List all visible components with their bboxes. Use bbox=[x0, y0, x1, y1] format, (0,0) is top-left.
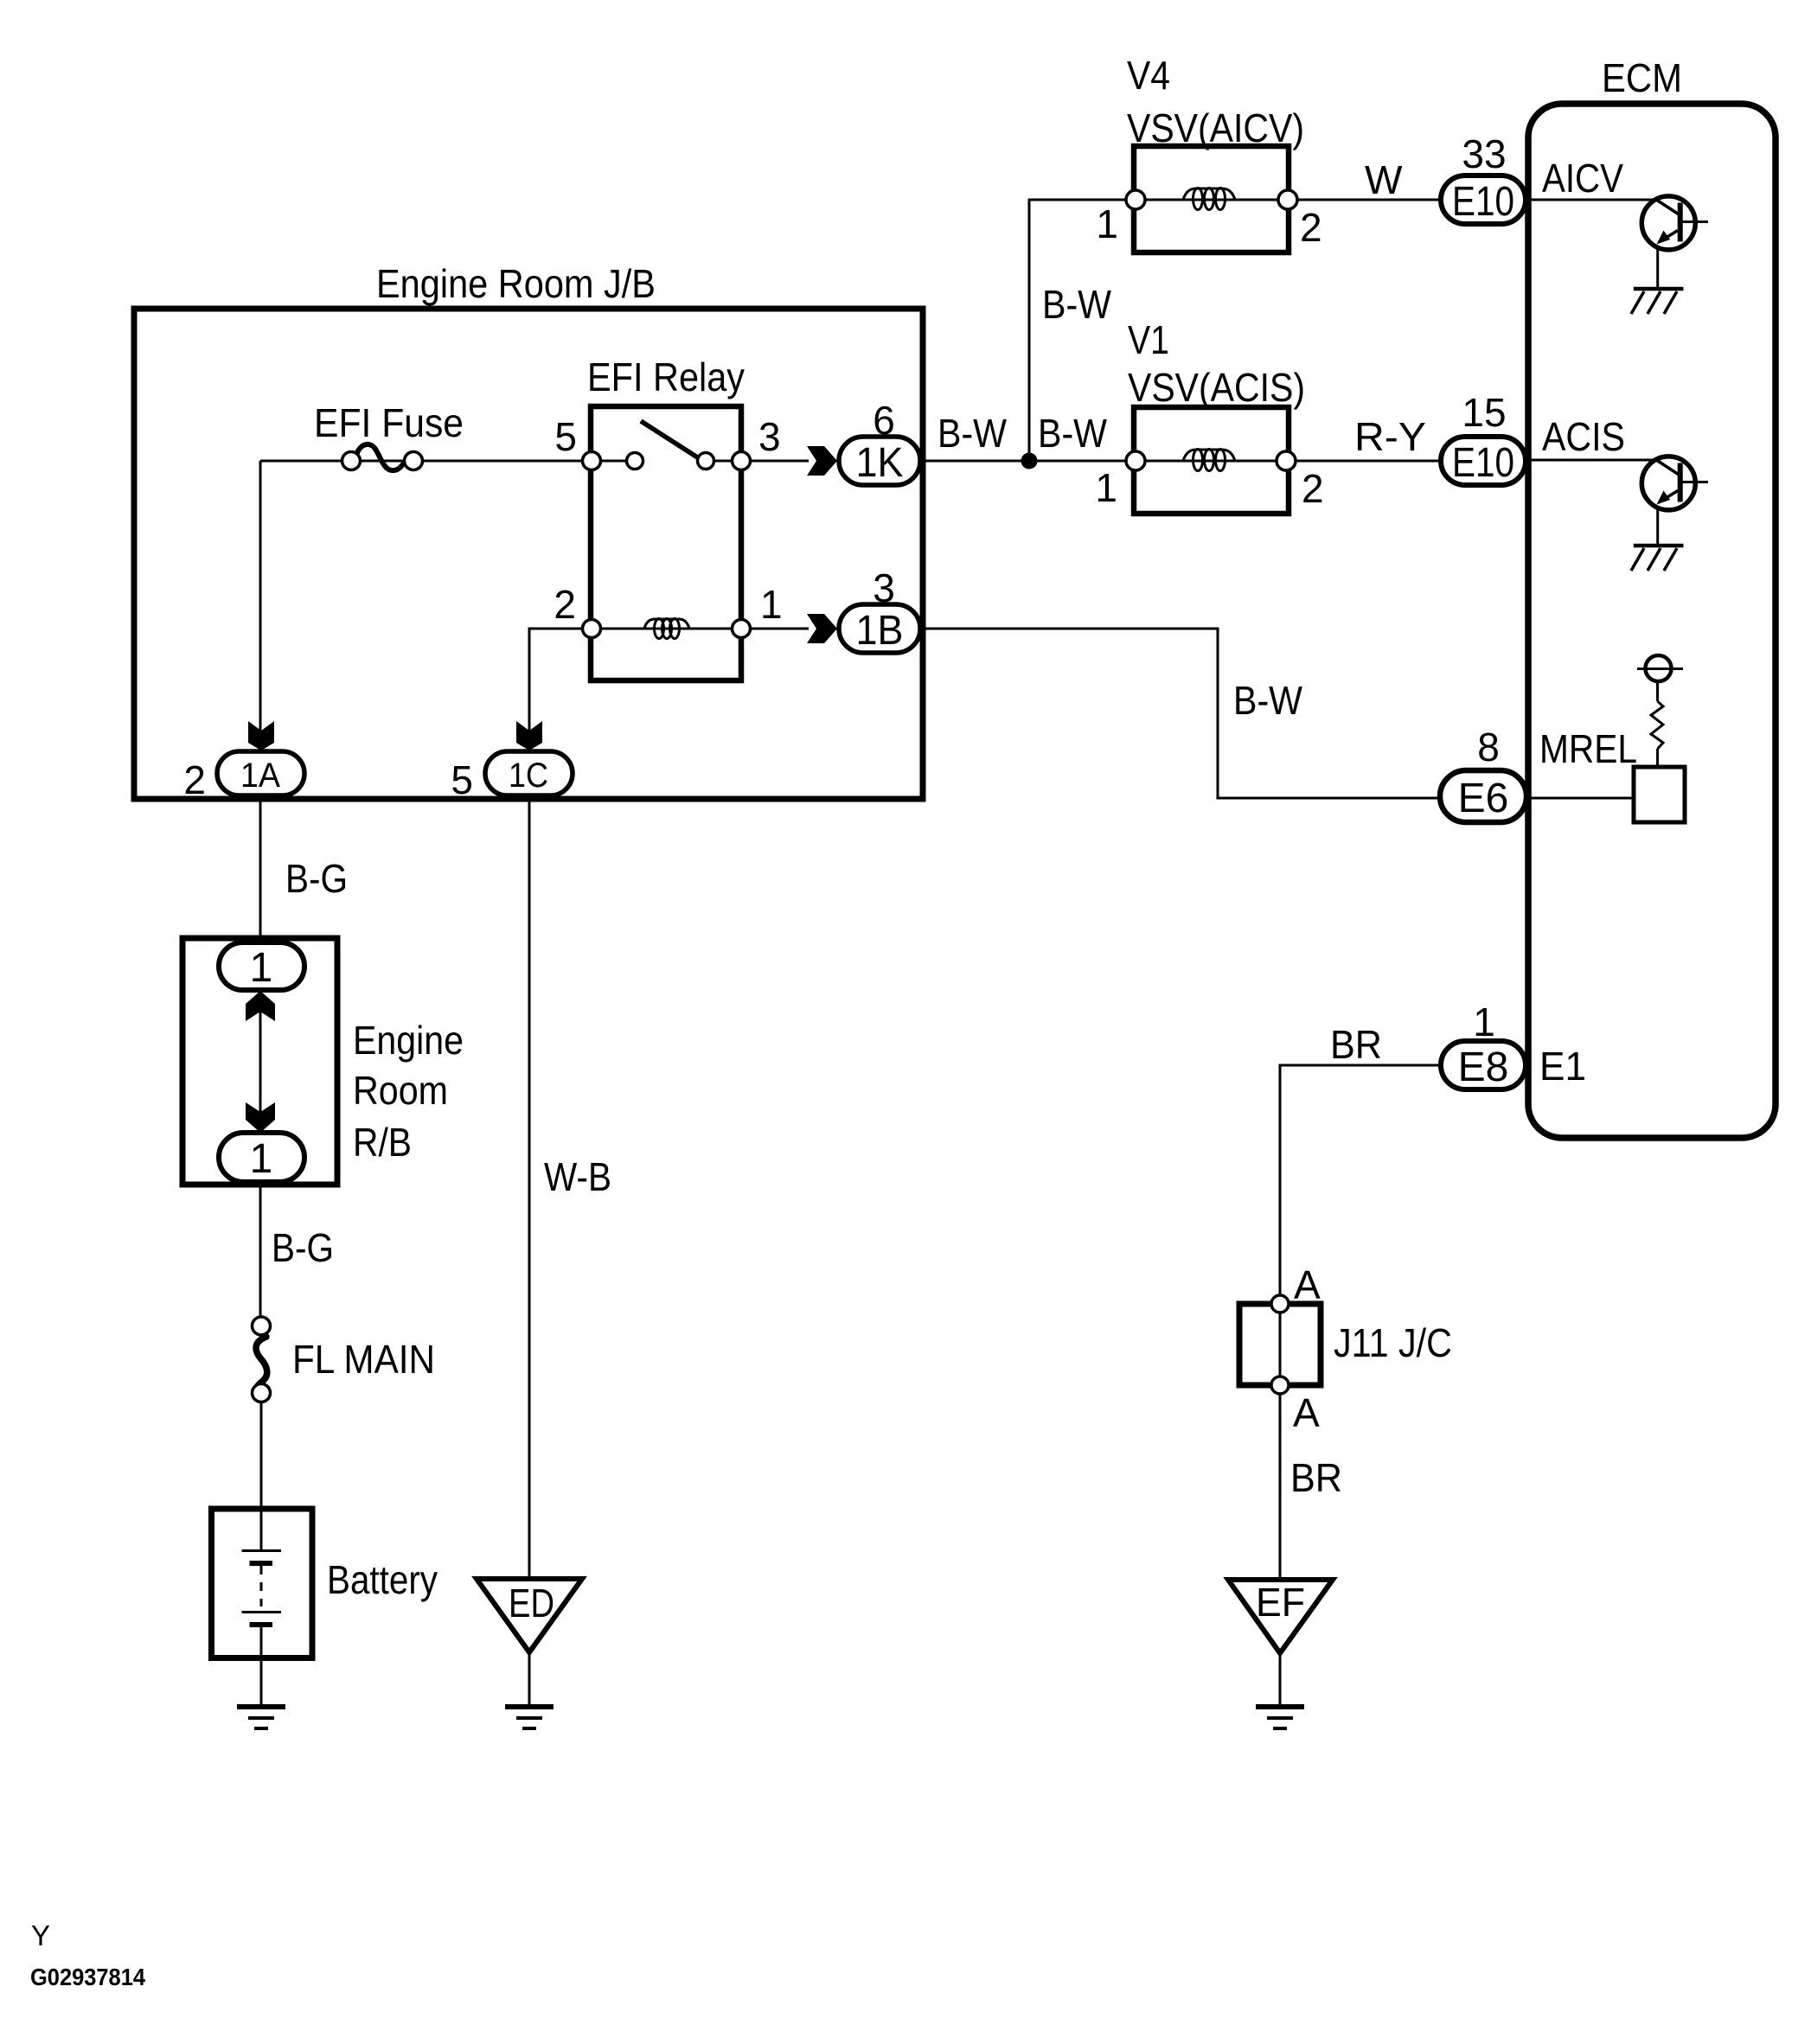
svg-text:V1: V1 bbox=[1128, 317, 1169, 362]
wire ED to earth bbox=[528, 1652, 531, 1707]
connector 1C pin 5 bbox=[451, 751, 573, 802]
R/B connector 1 top bbox=[219, 942, 304, 991]
wire 1K to VSV ACIS pin 1 (B-W) bbox=[920, 460, 1136, 463]
svg-text:EF: EF bbox=[1256, 1580, 1305, 1625]
svg-text:EFI Fuse: EFI Fuse bbox=[314, 400, 464, 445]
wire V4 pin2 to E10 (W) bbox=[1297, 199, 1441, 201]
svg-text:E6: E6 bbox=[1458, 776, 1509, 821]
svg-text:Engine: Engine bbox=[353, 1018, 464, 1063]
svg-text:1C: 1C bbox=[509, 757, 548, 795]
J11 pin A top bbox=[1271, 1262, 1321, 1313]
wire Q1 emitter to ground bbox=[1656, 246, 1659, 289]
wire MREL box to resistor bbox=[1656, 749, 1659, 767]
svg-text:E10: E10 bbox=[1452, 440, 1514, 486]
ground (chassis) for Q1 bbox=[1631, 289, 1684, 314]
svg-text:B-W: B-W bbox=[1042, 282, 1112, 327]
resistor (MREL pull-up) bbox=[1651, 701, 1663, 749]
transistor Q2 (ACIS driver) bbox=[1641, 457, 1708, 510]
svg-text:8: 8 bbox=[1477, 725, 1500, 770]
svg-text:VSV(ACIS): VSV(ACIS) bbox=[1128, 365, 1305, 410]
ECM box bbox=[1528, 55, 1776, 1138]
V1 coil bbox=[1183, 450, 1235, 461]
svg-text:EFI Relay: EFI Relay bbox=[587, 355, 745, 399]
svg-text:5: 5 bbox=[451, 757, 473, 802]
svg-text:E8: E8 bbox=[1458, 1044, 1509, 1090]
ground triangle EF bbox=[1228, 1580, 1333, 1653]
V1 pin 2 bbox=[1277, 451, 1324, 511]
svg-text:15: 15 bbox=[1462, 390, 1506, 435]
svg-text:G02937814: G02937814 bbox=[30, 1964, 145, 1990]
relay pin 1 bbox=[733, 582, 783, 638]
arrow into 1B bbox=[807, 614, 837, 643]
svg-text:1: 1 bbox=[250, 945, 273, 991]
wire Q2 emitter to ground bbox=[1656, 506, 1659, 546]
relay coil bbox=[644, 619, 689, 629]
V4 pin 1 bbox=[1096, 190, 1145, 246]
wire V1 pin2 to E10 (R-Y) bbox=[1296, 460, 1441, 463]
svg-text:2: 2 bbox=[1302, 466, 1324, 511]
relay EFI Relay bbox=[587, 355, 745, 680]
svg-text:B-G: B-G bbox=[272, 1225, 334, 1270]
ground (earth) for ED bbox=[505, 1707, 554, 1728]
svg-text:3: 3 bbox=[758, 414, 781, 459]
svg-text:W: W bbox=[1365, 157, 1403, 202]
connector E8 pin 1 / E1 bbox=[1441, 1000, 1526, 1090]
wire relay pin1 to 1B connector bbox=[750, 628, 809, 630]
svg-text:MREL: MREL bbox=[1539, 726, 1637, 771]
wire R/B down to FL MAIN (B-G) bbox=[259, 1182, 262, 1318]
svg-text:Room: Room bbox=[353, 1068, 448, 1113]
wire 1B to E6 (B-W) bbox=[920, 629, 1441, 798]
node junction dot bbox=[1021, 453, 1038, 469]
wire 1A down to R/B (B-G) bbox=[259, 800, 262, 944]
wire V1 pin1 to pin2 through coil bbox=[1136, 460, 1286, 463]
arrow down in R/B bbox=[246, 1102, 275, 1133]
svg-text:ECM: ECM bbox=[1602, 55, 1682, 100]
wire from EFI fuse row to relay pin 5 bbox=[260, 460, 591, 463]
connector E6 pin 8 bbox=[1440, 725, 1526, 822]
svg-text:ED: ED bbox=[509, 1581, 554, 1626]
svg-text:5: 5 bbox=[554, 414, 577, 459]
svg-text:E1: E1 bbox=[1539, 1044, 1586, 1089]
svg-text:ACIS: ACIS bbox=[1542, 414, 1625, 459]
svg-text:3: 3 bbox=[873, 565, 895, 610]
relay switch contact pins bbox=[627, 453, 643, 469]
arrow into 1C bbox=[516, 721, 542, 751]
fuse EFI Fuse bbox=[314, 400, 464, 470]
svg-text:Y: Y bbox=[31, 1919, 50, 1951]
R/B connector 1 bottom bbox=[219, 1133, 304, 1182]
svg-text:33: 33 bbox=[1462, 131, 1506, 176]
svg-text:J11 J/C: J11 J/C bbox=[1334, 1320, 1452, 1365]
wire E10 to transistor Q1 bbox=[1526, 199, 1657, 201]
transistor Q1 (AICV driver) bbox=[1641, 196, 1708, 250]
svg-text:1: 1 bbox=[760, 582, 783, 627]
svg-text:B-W: B-W bbox=[1233, 678, 1303, 723]
V4 coil bbox=[1183, 188, 1235, 200]
svg-text:R-Y: R-Y bbox=[1354, 414, 1426, 459]
junction box Engine Room J/B bbox=[134, 261, 923, 799]
relay switch blade bbox=[641, 421, 699, 458]
svg-text:1: 1 bbox=[250, 1136, 273, 1182]
svg-text:1: 1 bbox=[1096, 201, 1118, 246]
wire junction up to VSV AICV pin 1 (B-W) bbox=[1029, 200, 1136, 461]
connector 1A pin 2 bbox=[183, 751, 304, 802]
svg-text:AICV: AICV bbox=[1542, 156, 1623, 201]
wire relay pin2 to 1C connector bbox=[529, 629, 583, 733]
svg-text:B-W: B-W bbox=[1038, 411, 1108, 456]
svg-text:A: A bbox=[1294, 1262, 1321, 1307]
wire E8 to J11 (BR) bbox=[1280, 1065, 1441, 1295]
svg-text:V4: V4 bbox=[1127, 53, 1170, 98]
V4 pin 2 bbox=[1278, 190, 1322, 250]
battery bbox=[212, 1509, 438, 1658]
solenoid V4 VSV(AICV) bbox=[1127, 53, 1304, 252]
ground (chassis) for Q2 bbox=[1631, 546, 1684, 571]
wire battery to earth bbox=[260, 1658, 263, 1707]
wire vertical down to 1A connector bbox=[259, 461, 262, 733]
connector 1K pin 6 bbox=[839, 398, 920, 486]
wire contact to relay pin3 bbox=[706, 460, 741, 463]
relay pin 5 bbox=[554, 414, 600, 470]
svg-text:1: 1 bbox=[1473, 1000, 1495, 1044]
svg-text:2: 2 bbox=[554, 582, 576, 627]
svg-text:FL MAIN: FL MAIN bbox=[292, 1337, 435, 1382]
ground (earth) for battery bbox=[237, 1707, 285, 1728]
arrow into 1A bbox=[248, 721, 274, 751]
connector 1B pin 3 bbox=[839, 565, 920, 654]
wire between R/B connectors bbox=[259, 990, 262, 1133]
wire 1C down to ED (W-B) bbox=[528, 800, 531, 1579]
wire E10 to transistor Q2 bbox=[1526, 459, 1657, 462]
wire EF to earth bbox=[1279, 1653, 1282, 1707]
junction connector J11 J/C bbox=[1239, 1304, 1452, 1385]
solenoid V1 VSV(ACIS) bbox=[1128, 317, 1305, 514]
fusible link FL MAIN bbox=[253, 1317, 436, 1402]
svg-text:BR: BR bbox=[1290, 1455, 1342, 1500]
svg-text:1: 1 bbox=[1095, 465, 1117, 510]
wire resistor to supply circle bbox=[1656, 681, 1659, 701]
relay block Engine Room R/B bbox=[182, 938, 464, 1185]
power node circle bbox=[1637, 655, 1683, 681]
wire V4 pin1 to pin2 through coil bbox=[1136, 199, 1288, 201]
svg-text:2: 2 bbox=[183, 757, 206, 802]
svg-text:6: 6 bbox=[873, 398, 895, 443]
svg-text:A: A bbox=[1293, 1390, 1320, 1435]
MREL relay coil box bbox=[1634, 767, 1685, 822]
svg-text:BR: BR bbox=[1330, 1022, 1382, 1067]
J11 pin A bottom bbox=[1271, 1377, 1320, 1435]
connector E10 pin 33 bbox=[1441, 131, 1526, 225]
connector E10 pin 15 bbox=[1441, 390, 1526, 486]
svg-text:B-G: B-G bbox=[285, 856, 348, 901]
svg-text:R/B: R/B bbox=[353, 1120, 412, 1165]
svg-text:Engine Room J/B: Engine Room J/B bbox=[376, 261, 656, 306]
arrow into 1K bbox=[807, 446, 837, 476]
svg-text:1B: 1B bbox=[856, 608, 904, 654]
wire E6 to MREL coil box bbox=[1526, 797, 1634, 800]
svg-text:1K: 1K bbox=[856, 440, 904, 486]
svg-text:E10: E10 bbox=[1452, 179, 1514, 225]
svg-text:B-W: B-W bbox=[937, 411, 1008, 456]
wire relay pin5 to contact bbox=[592, 460, 635, 463]
wire FL MAIN to battery bbox=[260, 1402, 263, 1509]
wire relay pin2 to pin1 through coil bbox=[592, 628, 741, 630]
wire relay pin3 to 1K connector bbox=[750, 460, 809, 463]
svg-text:Battery: Battery bbox=[327, 1557, 438, 1602]
svg-text:VSV(AICV): VSV(AICV) bbox=[1127, 105, 1304, 150]
svg-text:W-B: W-B bbox=[544, 1154, 611, 1199]
ground triangle ED bbox=[477, 1579, 582, 1652]
svg-text:2: 2 bbox=[1300, 205, 1322, 250]
relay pin 2 bbox=[554, 582, 600, 638]
wire J11 to EF ground (BR) bbox=[1279, 1394, 1282, 1580]
svg-text:1A: 1A bbox=[240, 757, 280, 795]
relay pin 3 bbox=[733, 414, 781, 470]
arrow up to R/B 1 bbox=[246, 991, 275, 1021]
V1 pin 1 bbox=[1095, 451, 1145, 510]
ground (earth) for EF bbox=[1256, 1707, 1304, 1728]
